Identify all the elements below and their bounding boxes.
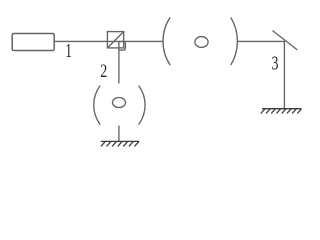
svg-text:1: 1	[65, 39, 72, 61]
fold mirror 3 diagonal	[273, 31, 297, 50]
horizontal cavity sample ellipse	[195, 37, 208, 48]
svg-text:3: 3	[272, 52, 279, 74]
wire beam 2 (splitter down to vertical cavity)	[118, 42, 120, 83]
small rounded box at splitter output	[119, 42, 126, 51]
beam splitter diagonal	[107, 32, 123, 48]
wire beam 1 (laser to cavity left mirror)	[54, 40, 163, 42]
wire beam 3 (fold mirror down to fixed mirror)	[283, 41, 285, 108]
wire beam 2 (cavity to bottom mirror)	[118, 126, 120, 141]
beam splitter cube	[107, 32, 123, 48]
svg-text:2: 2	[100, 60, 107, 82]
vertical cavity sample ellipse	[113, 98, 126, 108]
vertical cavity left mirror arc	[94, 86, 100, 124]
fixed mirror right	[261, 109, 302, 114]
fixed mirror bottom middle	[101, 141, 139, 146]
horizontal cavity right mirror arc	[231, 18, 237, 65]
vertical cavity right mirror arc	[139, 86, 145, 124]
wire (cavity right mirror to fold mirror 3)	[237, 40, 284, 42]
horizontal cavity left mirror arc	[163, 18, 170, 65]
laser box	[12, 34, 54, 51]
